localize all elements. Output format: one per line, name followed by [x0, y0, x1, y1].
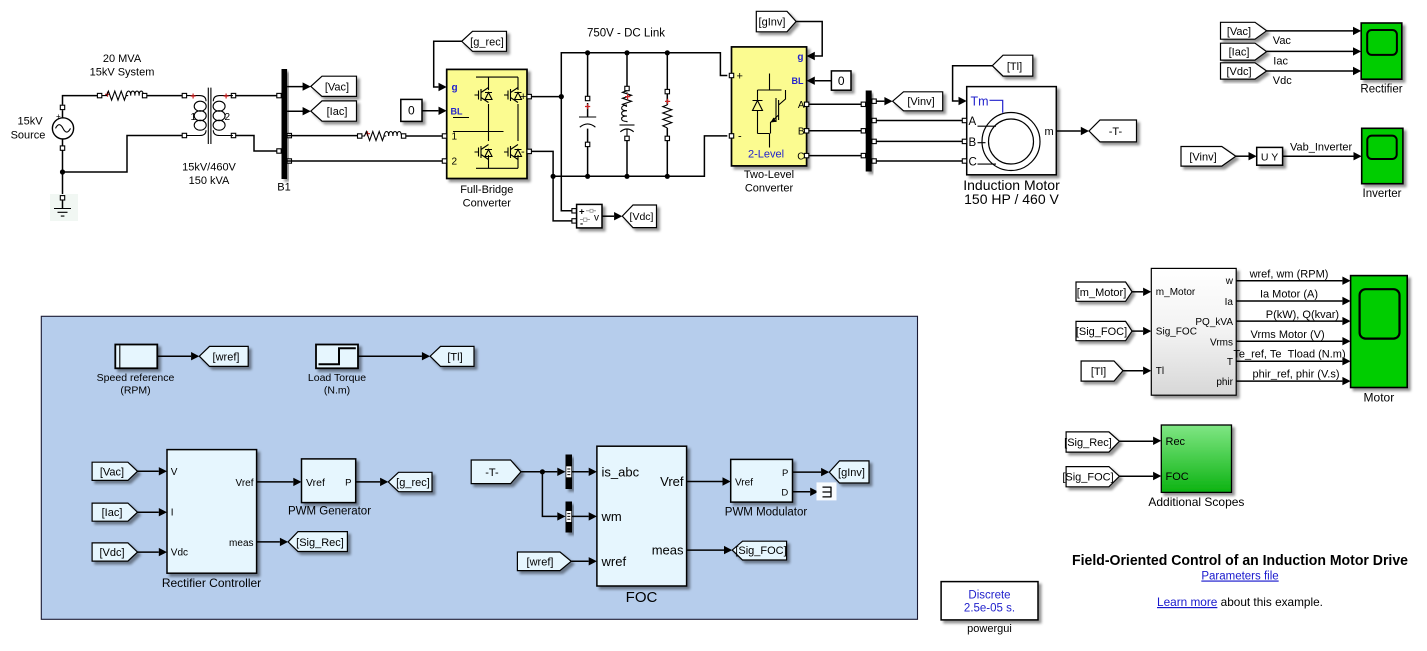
svg-text:FOC: FOC: [626, 589, 658, 606]
wire Vrms to scope: [1236, 340, 1342, 342]
wire bus to motor A: [876, 120, 962, 122]
svg-text:Rectifier: Rectifier: [1360, 84, 1402, 96]
svg-text:P(kW), Q(kvar): P(kW), Q(kvar): [1266, 309, 1339, 321]
svg-text:[Vdc]: [Vdc]: [1226, 66, 1251, 78]
svg-text:[Sig_FOC]: [Sig_FOC]: [735, 545, 786, 557]
svg-text:[Iac]: [Iac]: [327, 106, 348, 118]
wire g_rec to g: [434, 41, 462, 87]
wire to transformer bottom: [63, 136, 183, 173]
wire Tl to meas block: [1123, 370, 1143, 372]
voltage measurement Vdc: [577, 204, 602, 228]
svg-text:FOC: FOC: [1166, 471, 1189, 483]
svg-text:Load Torque: Load Torque: [308, 372, 366, 384]
wire DC top rail: [561, 53, 727, 97]
source V1 15kV Source: [11, 112, 74, 142]
transformer T1 15kV/460V: [182, 88, 236, 187]
goto [wref]: [199, 346, 248, 366]
svg-text:+: +: [737, 70, 743, 82]
svg-text:1: 1: [191, 112, 197, 123]
svg-text:Vac: Vac: [1273, 35, 1292, 47]
bus B2: [866, 91, 872, 172]
svg-text:B: B: [969, 137, 977, 149]
wire Vdc to Vdc port: [138, 551, 159, 553]
svg-text:(RPM): (RPM): [120, 385, 150, 397]
svg-text:0: 0: [838, 74, 845, 88]
wire Iac to scope: [1267, 50, 1353, 52]
from [m_Motor]: [1076, 282, 1132, 301]
svg-text:Vref: Vref: [735, 478, 753, 489]
from [wref]: [517, 552, 571, 571]
svg-text:m_Motor: m_Motor: [1156, 287, 1196, 298]
from [Sig_Rec] (scope feed): [1064, 432, 1119, 452]
svg-text:Converter: Converter: [463, 198, 512, 210]
goto [Iac]: [311, 101, 357, 121]
svg-text:Learn more about this example.: Learn more about this example.: [1157, 595, 1323, 609]
svg-text:[Iac]: [Iac]: [1229, 47, 1250, 59]
wire Ia to scope: [1236, 300, 1342, 302]
resistor branch R1: [663, 50, 672, 179]
from [g_rec]: [462, 31, 507, 51]
wire RL to transformer: [147, 95, 182, 97]
svg-text:is_abc: is_abc: [602, 464, 640, 479]
rate transition RT2: [566, 502, 573, 533]
goto [Vdc]: [622, 205, 656, 228]
svg-text:Parameters file: Parameters file: [1201, 571, 1278, 583]
svg-text:[Vac]: [Vac]: [100, 466, 124, 478]
svg-text:PQ_kVA: PQ_kVA: [1195, 317, 1233, 328]
wire Iac to I: [138, 511, 159, 513]
svg-text:[Vac]: [Vac]: [325, 81, 349, 93]
svg-text:[g_rec]: [g_rec]: [470, 36, 504, 48]
wire Vinv to selector: [1236, 155, 1249, 157]
goto -T-: [1089, 120, 1137, 142]
node branch: [540, 469, 545, 474]
from [Sig_FOC] (meas feed): [1076, 321, 1132, 340]
svg-text:Field-Oriented Control of an I: Field-Oriented Control of an Induction M…: [1072, 553, 1408, 569]
svg-text:2-Level: 2-Level: [748, 149, 784, 161]
svg-text:[wref]: [wref]: [527, 556, 554, 568]
from [Vdc] (scope feed): [1221, 63, 1267, 79]
svg-text:wm: wm: [601, 509, 622, 524]
step Load Torque: [316, 345, 358, 369]
svg-text:750V - DC Link: 750V - DC Link: [587, 27, 665, 39]
terminator: [817, 482, 837, 500]
svg-text:Ia: Ia: [1225, 297, 1234, 308]
wire Vdc+ measure: [561, 97, 572, 211]
svg-text:C: C: [969, 157, 977, 169]
wire Vdc- measure: [553, 176, 572, 221]
svg-text:[Tl]: [Tl]: [447, 351, 462, 363]
wire P to g_rec goto: [356, 481, 380, 483]
goto [Vinv]: [893, 92, 943, 111]
svg-text:Two-Level: Two-Level: [744, 169, 794, 181]
from [Vac] (scope feed): [1221, 22, 1267, 39]
wire B1 to Iac goto: [287, 110, 303, 112]
svg-text:-T-: -T-: [1109, 126, 1123, 138]
goto [gInv]: [829, 461, 869, 483]
wire phir to scope: [1236, 380, 1342, 382]
rate transition RT1: [566, 455, 573, 490]
resistor-inductor Z2 (series RL): [358, 131, 406, 140]
node ground-junction: [60, 169, 65, 174]
svg-text:A: A: [798, 100, 805, 111]
svg-text:[Vinv]: [Vinv]: [907, 96, 934, 108]
svg-text:B: B: [798, 127, 805, 138]
goto [Tl]: [430, 346, 474, 366]
svg-text:-: -: [738, 131, 742, 143]
wire Tl to Tm: [953, 66, 993, 101]
subsystem Additional Scopes: [1161, 425, 1231, 492]
wire 0 to BL: [815, 80, 832, 82]
svg-text:Motor: Motor: [1364, 391, 1395, 405]
wire m_Motor to meas block: [1132, 291, 1143, 293]
icon TLC igbt-diode: [753, 74, 786, 148]
wire Vac to V: [138, 470, 159, 472]
svg-text:2: 2: [225, 112, 231, 123]
svg-text:V: V: [171, 467, 178, 478]
svg-text:Source: Source: [11, 130, 46, 142]
svg-text:[Sig_Rec]: [Sig_Rec]: [1064, 437, 1112, 449]
svg-text:A: A: [969, 116, 977, 128]
goto [Sig_FOC]: [732, 541, 786, 560]
svg-text:[gInv]: [gInv]: [838, 467, 865, 479]
wire v to Vdc goto: [602, 215, 614, 217]
svg-text:v: v: [594, 213, 599, 224]
svg-text:g: g: [797, 52, 803, 63]
resistor-inductor Z1 (series RL): [97, 91, 146, 100]
svg-text:Te_ref, Te Tload (N.m): Te_ref, Te Tload (N.m): [1233, 348, 1345, 360]
from [Vac] (controller feed): [92, 462, 137, 480]
wire speed ref to wref goto: [157, 355, 191, 357]
control area panel: [41, 316, 917, 619]
svg-text:Vref: Vref: [660, 474, 684, 489]
svg-text:15kV: 15kV: [17, 116, 43, 128]
constant 0 (inverter BL): [831, 71, 851, 90]
svg-text:meas: meas: [652, 543, 684, 558]
svg-text:phir_ref, phir (V.s): phir_ref, phir (V.s): [1252, 368, 1339, 380]
svg-text:-T-: -T-: [485, 467, 499, 479]
wire Vac to scope: [1267, 30, 1353, 32]
goto [g_rec]: [388, 472, 432, 491]
svg-text:20 MVA: 20 MVA: [103, 53, 142, 65]
wire wref to FOC: [571, 560, 589, 562]
bus B1: [282, 69, 288, 179]
svg-text:P: P: [782, 468, 788, 479]
wire FBC+ to DC rail: [531, 96, 561, 98]
svg-text:PWM Modulator: PWM Modulator: [725, 506, 808, 518]
svg-text:Discrete: Discrete: [968, 590, 1010, 602]
subsystem Rectifier Controller: [167, 450, 257, 574]
svg-text:[gInv]: [gInv]: [759, 17, 786, 29]
wire Sig_Rec to Additional Scopes: [1119, 440, 1153, 442]
svg-text:Additional Scopes: Additional Scopes: [1148, 495, 1244, 509]
svg-text:Vref: Vref: [306, 477, 325, 489]
from -T-: [471, 460, 521, 484]
from [Tl]: [992, 55, 1033, 76]
svg-text:[m_Motor]: [m_Motor]: [1077, 287, 1127, 299]
svg-text:2.5e-05 s.: 2.5e-05 s.: [964, 603, 1015, 615]
wire FOC Vref to PWM Modulator: [687, 481, 723, 483]
wire TLC B to bus: [809, 130, 866, 132]
svg-text:Ia Motor (A): Ia Motor (A): [1260, 289, 1318, 301]
signal builder Speed reference: [115, 345, 157, 369]
svg-text:[Sig_FOC]: [Sig_FOC]: [1062, 472, 1113, 484]
wire Vref to PWM Generator: [257, 481, 294, 483]
svg-text:wref: wref: [601, 554, 627, 569]
capacitor branch C1: [579, 50, 596, 179]
svg-text:+: +: [56, 112, 61, 121]
svg-text:Converter: Converter: [745, 183, 794, 195]
label 20 MVA 15kV System: [90, 53, 155, 79]
wire B1 to Vac goto: [287, 86, 303, 88]
svg-text:D: D: [781, 488, 788, 499]
svg-text:15kV/460V: 15kV/460V: [182, 162, 236, 174]
selector U Y: [1257, 147, 1283, 165]
wire selector to Inverter scope: [1283, 155, 1354, 157]
svg-text:C: C: [797, 151, 804, 162]
wire w to scope: [1236, 280, 1342, 282]
svg-text:[Vdc]: [Vdc]: [99, 547, 124, 559]
wire DC bottom rail: [553, 136, 727, 176]
svg-text:Rec: Rec: [1166, 436, 1186, 448]
wire bus to Vinv goto: [876, 100, 884, 102]
svg-text:powergui: powergui: [967, 623, 1012, 635]
scope Inverter: [1362, 128, 1403, 183]
svg-text:150 HP / 460 V: 150 HP / 460 V: [964, 191, 1059, 207]
svg-text:w: w: [1225, 276, 1234, 287]
svg-text:0: 0: [408, 104, 415, 118]
svg-text:[Tl]: [Tl]: [1007, 61, 1022, 73]
svg-text:[wref]: [wref]: [213, 351, 240, 363]
svg-text:-: -: [580, 219, 583, 230]
from [Iac] (controller feed): [92, 503, 137, 521]
series RLC branch: [620, 50, 635, 179]
svg-text:[Sig_Rec]: [Sig_Rec]: [296, 537, 344, 549]
wire B1 to FBC port2: [287, 160, 442, 162]
svg-text:[g_rec]: [g_rec]: [396, 477, 430, 489]
from [Iac] (scope feed): [1221, 43, 1267, 60]
wire TLC A to bus: [809, 103, 866, 105]
svg-text:(N.m): (N.m): [324, 385, 350, 397]
wire 0 to BL: [422, 110, 438, 112]
subsystem PWM Modulator: [731, 459, 793, 502]
wire FBC- to DC bottom rail: [531, 151, 553, 176]
wire -T- to rate transitions: [521, 472, 557, 517]
svg-text:Tm: Tm: [971, 94, 989, 108]
svg-text:Vref: Vref: [236, 478, 254, 489]
wire bus to motor C: [876, 160, 962, 162]
wire RT1 to is_abc: [572, 471, 589, 473]
wire source top: [63, 96, 98, 118]
svg-text:Iac: Iac: [1273, 55, 1288, 67]
svg-text:wref, wm (RPM): wref, wm (RPM): [1249, 269, 1329, 281]
svg-text:B1: B1: [277, 182, 290, 194]
svg-text:Vrms Motor (V): Vrms Motor (V): [1251, 329, 1325, 341]
svg-text:Vdc: Vdc: [171, 548, 188, 559]
powergui: [941, 582, 1038, 620]
from [gInv]: [756, 11, 796, 32]
svg-text:Speed reference: Speed reference: [97, 372, 175, 384]
svg-text:Vrms: Vrms: [1210, 337, 1233, 348]
svg-text:PWM Generator: PWM Generator: [288, 505, 371, 517]
icon FBC bridge: [453, 77, 522, 168]
from [Vinv]: [1181, 147, 1236, 167]
port: [60, 105, 64, 109]
svg-text:[Vac]: [Vac]: [1227, 26, 1251, 38]
svg-text:+: +: [579, 207, 585, 218]
wire Sig_FOC to meas block: [1132, 330, 1143, 332]
svg-text:Rectifier Controller: Rectifier Controller: [162, 576, 261, 590]
svg-text:Vdc: Vdc: [1273, 75, 1292, 87]
svg-text:2: 2: [452, 157, 458, 168]
from [Sig_FOC] (scope feed 2): [1062, 467, 1119, 487]
wire RL2 to FBC port1: [406, 135, 443, 137]
svg-text:15kV System: 15kV System: [90, 67, 155, 79]
svg-text:phir: phir: [1216, 377, 1233, 388]
svg-text:T: T: [1227, 357, 1233, 368]
wire meas to Sig_FOC goto: [687, 549, 724, 551]
svg-text:1: 1: [452, 132, 458, 143]
svg-text:150 kVA: 150 kVA: [189, 175, 230, 187]
svg-text:Full-Bridge: Full-Bridge: [460, 184, 513, 196]
svg-text:BL: BL: [451, 106, 463, 116]
wire RT2 to wm: [572, 515, 589, 517]
subsystem Measurements: [1151, 268, 1236, 395]
converter U-inv Two-Level Converter: [732, 47, 807, 166]
wire source bottom: [62, 139, 64, 196]
svg-text:Sig_FOC: Sig_FOC: [1156, 327, 1197, 338]
svg-text:Vab_Inverter: Vab_Inverter: [1290, 141, 1353, 153]
svg-text:Tl: Tl: [1156, 366, 1164, 377]
svg-text:I: I: [171, 508, 174, 519]
wire bus to motor B: [876, 140, 962, 142]
scope Rectifier: [1361, 23, 1402, 79]
wire B1 to RL2: [287, 135, 357, 137]
ground G1: [50, 194, 78, 221]
wire load torque to Tl goto: [358, 355, 422, 357]
svg-text:meas: meas: [229, 538, 253, 549]
wire Sig_FOC to Additional Scopes: [1119, 475, 1153, 477]
svg-text:U Y: U Y: [1261, 151, 1278, 163]
svg-text:[Sig_FOC]: [Sig_FOC]: [1076, 326, 1127, 338]
wire transformer to bus B1: [236, 96, 282, 151]
subsystem PWM Generator: [302, 459, 356, 503]
converter U-rec Full-Bridge Converter: [447, 69, 527, 178]
svg-text:g: g: [452, 83, 458, 94]
from [Tl] (meas feed): [1081, 361, 1123, 381]
node bottom-left: [551, 174, 556, 179]
svg-text:[Vinv]: [Vinv]: [1189, 152, 1216, 164]
svg-text:BL: BL: [792, 76, 804, 86]
constant 0 (rectifier BL): [401, 99, 422, 121]
svg-text:[Tl]: [Tl]: [1091, 366, 1106, 378]
wire T to scope: [1236, 360, 1342, 362]
scope Motor: [1351, 276, 1408, 388]
svg-text:m: m: [1045, 126, 1054, 138]
subsystem FOC: [597, 446, 687, 586]
node dc+: [559, 94, 564, 99]
wire gInv to g: [796, 22, 822, 57]
motor M1 Induction Motor: [967, 87, 1057, 175]
wire P to gInv goto: [793, 471, 822, 473]
goto [Vac]: [311, 76, 357, 96]
wire Vdc to scope: [1267, 70, 1353, 72]
svg-text:P: P: [345, 477, 351, 488]
svg-text:[Iac]: [Iac]: [102, 507, 123, 519]
wire TLC C to bus: [809, 155, 866, 157]
wire meas to Sig_Rec goto: [257, 541, 280, 543]
goto [Sig_Rec]: [288, 532, 347, 552]
wire m to -T- goto: [1056, 130, 1081, 132]
wire D to terminator: [793, 491, 811, 493]
from [Vdc] (controller feed): [92, 543, 137, 561]
wire PQ to scope: [1236, 320, 1342, 322]
svg-text:Inverter: Inverter: [1363, 188, 1402, 200]
svg-text:[Vdc]: [Vdc]: [630, 211, 654, 223]
